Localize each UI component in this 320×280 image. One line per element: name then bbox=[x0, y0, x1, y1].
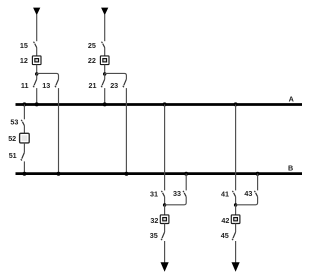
node junction bbox=[103, 72, 106, 75]
circuit breaker 12 bbox=[32, 56, 41, 65]
wire bbox=[164, 205, 166, 215]
wire bbox=[36, 65, 38, 74]
disconnector switch 51 bbox=[21, 153, 25, 161]
node bus B tap 43 bbox=[256, 172, 260, 176]
svg-text:52: 52 bbox=[8, 134, 16, 143]
wire bbox=[23, 161, 25, 173]
disconnector switch 53 bbox=[21, 120, 24, 126]
wire bbox=[125, 88, 127, 174]
svg-text:22: 22 bbox=[88, 56, 96, 65]
wire branch from disconnector 33 to junction bbox=[165, 197, 187, 205]
wire branch from disconnector 43 to junction bbox=[236, 197, 258, 205]
svg-text:23: 23 bbox=[110, 81, 118, 90]
node bus A tap 21 bbox=[103, 102, 107, 106]
wire bbox=[235, 224, 237, 233]
svg-text:21: 21 bbox=[89, 81, 97, 90]
busbar A bbox=[16, 103, 303, 106]
wire bbox=[104, 48, 106, 56]
wire bbox=[164, 105, 166, 191]
svg-text:B: B bbox=[288, 163, 293, 172]
svg-text:43: 43 bbox=[244, 189, 252, 198]
svg-text:45: 45 bbox=[221, 231, 229, 240]
disconnector switch 33 bbox=[183, 191, 186, 197]
wire bbox=[23, 142, 25, 152]
svg-text:42: 42 bbox=[221, 216, 229, 225]
wire bbox=[36, 15, 38, 42]
wire bbox=[235, 105, 237, 191]
disconnector switch 23 bbox=[123, 79, 127, 87]
svg-text:41: 41 bbox=[221, 190, 229, 199]
wire bbox=[36, 48, 38, 56]
svg-text:12: 12 bbox=[20, 56, 28, 65]
node junction bbox=[35, 72, 38, 75]
node junction bbox=[234, 203, 237, 206]
wire bbox=[104, 15, 106, 42]
wire bbox=[164, 241, 166, 264]
wire bbox=[23, 105, 25, 120]
svg-text:31: 31 bbox=[150, 190, 158, 199]
wire bbox=[164, 197, 166, 205]
disconnector switch 31 bbox=[161, 191, 164, 197]
svg-text:A: A bbox=[289, 95, 294, 104]
disconnector switch 35 bbox=[161, 232, 165, 240]
wire bbox=[104, 73, 106, 79]
outgoing load arrow feeder 40 bbox=[232, 262, 240, 272]
circuit breaker 22 bbox=[100, 56, 109, 65]
wire bbox=[164, 224, 166, 233]
incoming source arrow feeder 20 bbox=[101, 8, 108, 16]
svg-text:53: 53 bbox=[10, 118, 18, 127]
disconnector switch 45 bbox=[232, 232, 236, 240]
circuit breaker 52 bbox=[20, 133, 30, 143]
wire bbox=[36, 88, 38, 104]
node bus A tap feeder 40 bbox=[234, 102, 238, 106]
svg-text:35: 35 bbox=[150, 231, 158, 240]
outgoing load arrow feeder 30 bbox=[161, 262, 169, 272]
node bus A coupler tap bbox=[22, 102, 26, 106]
disconnector switch 15 bbox=[34, 42, 37, 48]
wire bbox=[235, 241, 237, 264]
disconnector switch 25 bbox=[102, 42, 105, 48]
wire bbox=[185, 174, 187, 191]
busbar B bbox=[16, 172, 303, 175]
svg-text:11: 11 bbox=[21, 81, 29, 90]
svg-text:33: 33 bbox=[173, 189, 181, 198]
node bus B tap 13 bbox=[57, 172, 61, 176]
node bus B coupler tap bbox=[22, 172, 26, 176]
wire bbox=[235, 197, 237, 205]
svg-text:32: 32 bbox=[150, 216, 158, 225]
svg-text:51: 51 bbox=[9, 151, 17, 160]
node bus A tap feeder 30 bbox=[163, 102, 167, 106]
circuit breaker 42 bbox=[231, 215, 240, 224]
disconnector switch 13 bbox=[55, 79, 59, 87]
node bus B tap 23 bbox=[124, 172, 128, 176]
svg-text:15: 15 bbox=[20, 41, 28, 50]
svg-text:25: 25 bbox=[88, 41, 96, 50]
wire bbox=[257, 174, 259, 191]
node bus B tap 33 bbox=[184, 172, 188, 176]
wire branch to bus B disconnector bbox=[37, 73, 59, 79]
incoming source arrow feeder 10 bbox=[33, 8, 40, 16]
disconnector switch 11 bbox=[33, 79, 37, 87]
wire branch to bus B disconnector bbox=[105, 73, 127, 79]
wire bbox=[235, 205, 237, 215]
node junction bbox=[163, 203, 166, 206]
wire bbox=[23, 126, 25, 134]
node bus A tap 11 bbox=[35, 102, 39, 106]
disconnector switch 43 bbox=[254, 191, 257, 197]
wire bbox=[36, 73, 38, 79]
wire bbox=[58, 88, 60, 174]
wire bbox=[104, 65, 106, 74]
wire bbox=[104, 88, 106, 104]
circuit breaker 32 bbox=[160, 215, 169, 224]
disconnector switch 41 bbox=[232, 191, 235, 197]
svg-text:13: 13 bbox=[42, 81, 50, 90]
disconnector switch 21 bbox=[101, 79, 105, 87]
